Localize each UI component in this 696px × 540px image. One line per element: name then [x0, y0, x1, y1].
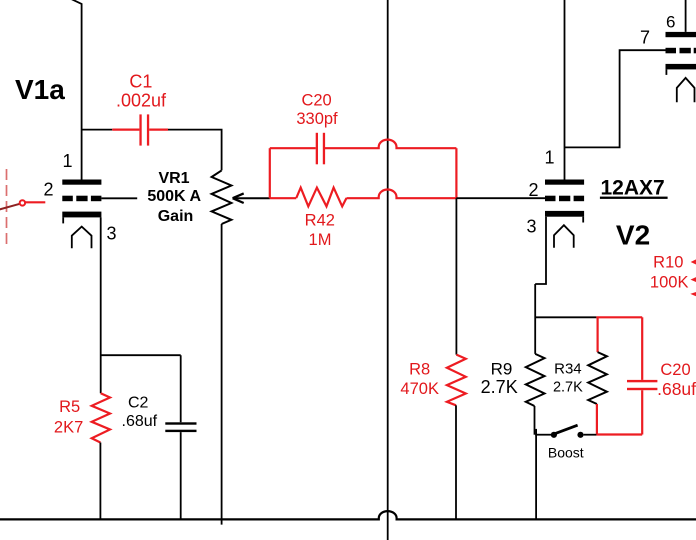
wire R34 bottom (red) [596, 404, 598, 435]
bottom red rail of boost network [596, 433, 642, 435]
wire R42 line right with hop [347, 189, 457, 198]
svg-text:C20: C20 [301, 92, 331, 110]
switch Boost contact left [551, 432, 557, 438]
triode V2: plate [545, 180, 584, 185]
wire pin1 to pin7 link [565, 50, 666, 147]
svg-text:R5: R5 [59, 398, 80, 416]
svg-text:C20: C20 [660, 361, 690, 379]
wire R5 to ground rail [99, 443, 101, 520]
resistor R10 100K (red zigzag, clipped at right edge) [693, 249, 696, 299]
svg-text:.68uf: .68uf [657, 379, 696, 399]
svg-text:100K: 100K [650, 274, 689, 292]
svg-text:330pf: 330pf [296, 110, 338, 128]
svg-text:V2: V2 [616, 220, 650, 251]
svg-text:12AX7: 12AX7 [601, 176, 665, 199]
triode V2: cathode [545, 211, 584, 217]
capacitor C2 .68uf [165, 422, 196, 424]
wire grid stub pin 2 [101, 197, 137, 199]
svg-text:3: 3 [527, 217, 537, 237]
wire R42 line left [270, 197, 297, 199]
svg-text:R10: R10 [653, 254, 683, 272]
resistor R42 1M (red zigzag) [296, 188, 346, 207]
long vertical bus wire (center) [387, 0, 389, 540]
wire from B+ supply (top-left feed to V1a plate) [71, 0, 81, 180]
resistor R34 2.7K (black zigzag) [588, 352, 607, 404]
svg-text:Boost: Boost [548, 444, 584, 460]
wire C2 to ground rail [180, 432, 182, 519]
wire to V2 grid [456, 197, 545, 199]
wire C1 to VR1 top [168, 130, 222, 171]
svg-text:1M: 1M [309, 231, 332, 249]
ground rail (bottom, with hop) [0, 511, 696, 519]
wire C20 cathode bypass top (red) [641, 317, 643, 380]
top rail cathode network (black part) [535, 316, 596, 318]
svg-text:470K: 470K [400, 380, 439, 398]
wire VR1 bottom to ground rail [221, 224, 223, 525]
input wire to pin 2 (red) [25, 201, 45, 203]
triode V2: heater [554, 225, 574, 248]
wire V2 cathode down with jog [535, 217, 547, 354]
svg-text:7: 7 [640, 28, 650, 48]
triode V1a: heater [72, 227, 92, 249]
wire C20 bottom (red) [641, 390, 643, 434]
VR1 wiper arrow [233, 193, 270, 203]
wire switch right [584, 434, 597, 436]
page-break dashed line (red) [6, 169, 8, 246]
wire V1a cathode down [100, 217, 102, 393]
svg-text:R42: R42 [305, 212, 335, 230]
svg-text:1: 1 [63, 151, 73, 171]
svg-text:Gain: Gain [158, 208, 194, 225]
svg-text:C1: C1 [129, 72, 152, 92]
capacitor C20 330pf [316, 133, 318, 165]
svg-text:R8: R8 [409, 361, 430, 379]
top rail red part [596, 316, 642, 318]
svg-text:R9: R9 [491, 359, 513, 378]
svg-text:500K A: 500K A [147, 188, 201, 205]
resistor R5 2K7 (red zigzag) [92, 393, 110, 442]
svg-text:3: 3 [107, 224, 117, 244]
triode V1a: grid (dashed) [62, 196, 73, 202]
potentiometer VR1 500K A (zigzag) [212, 170, 232, 224]
wire junction down to ground rail [535, 429, 537, 520]
wire V2 plate lead (pin 1) [564, 0, 566, 180]
wire plate to C1 (black left segment) [82, 129, 113, 131]
red loop left vertical [269, 148, 271, 198]
svg-text:V1a: V1a [15, 74, 65, 105]
wire cathode to C2 (top rail) [101, 354, 181, 356]
triode V2b: heater [677, 78, 695, 102]
triode V1a: plate [62, 180, 101, 185]
svg-text:6: 6 [666, 13, 675, 32]
svg-text:1: 1 [545, 148, 555, 168]
triode V2b: grid (dashed) [666, 48, 677, 54]
svg-text:C2: C2 [128, 394, 149, 411]
svg-text:2.7K: 2.7K [553, 379, 583, 395]
resistor R9 2.7K (black zigzag) [526, 354, 545, 406]
svg-text:2: 2 [44, 180, 54, 200]
off-page input wire (dark red diagonal) [0, 204, 20, 210]
wire junction down to R8 [455, 198, 457, 354]
svg-text:2.7K: 2.7K [481, 377, 518, 397]
wire C2 top [180, 355, 182, 422]
svg-text:VR1: VR1 [158, 170, 189, 187]
wire R34 top (red) [596, 317, 598, 352]
triode V2: grid (dashed) [545, 196, 556, 202]
input node circle [20, 200, 25, 205]
svg-text:R34: R34 [554, 360, 582, 377]
capacitor C1 .002uf [112, 114, 168, 145]
svg-text:.68uf: .68uf [122, 413, 158, 430]
svg-text:2: 2 [529, 180, 539, 200]
resistor R8 470K (red zigzag) [447, 355, 466, 406]
switch lever [555, 425, 578, 434]
svg-text:.002uf: .002uf [116, 91, 167, 111]
wire R9 to switch junction [534, 406, 536, 435]
triode V2b: plate [666, 32, 696, 37]
wire pin 6 plate lead (upper triode) [685, 0, 687, 32]
capacitor C20 .68uf (red) [627, 380, 657, 382]
svg-text:2K7: 2K7 [54, 419, 83, 437]
wire R8 to ground rail [455, 405, 457, 519]
wire switch left [535, 434, 551, 436]
switch Boost contact right [577, 432, 583, 438]
red loop right vertical [455, 148, 457, 198]
triode V1a: cathode [62, 212, 101, 218]
wire C20 top line with hop [270, 140, 457, 149]
triode V2b: cathode [666, 64, 696, 70]
